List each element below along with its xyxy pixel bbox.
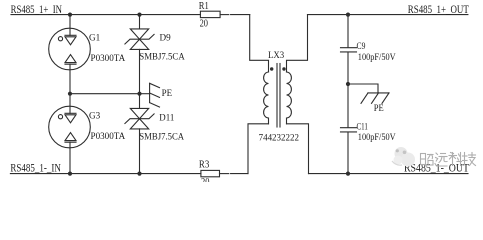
svg-text:PE: PE — [162, 89, 173, 99]
wire D9 top drop — [139, 15, 141, 29]
capacitor C11 — [341, 127, 357, 129]
wire middle horizontal G-D — [70, 93, 140, 95]
svg-text:100pF/50V: 100pF/50V — [358, 133, 396, 143]
transformer LX3 — [268, 51, 284, 61]
node junction bottom D11 — [137, 172, 141, 176]
node RS485_1-_IN label — [10, 161, 61, 175]
ground PE right — [368, 92, 389, 94]
svg-text:G1: G1 — [89, 33, 100, 43]
gas discharge tube G3 — [49, 106, 91, 148]
node junction bottom C11 — [346, 172, 350, 176]
node junction mid D — [137, 92, 141, 96]
svg-text:C11: C11 — [357, 122, 369, 132]
svg-text:D11: D11 — [159, 113, 174, 123]
svg-text:RS485_1-_IN: RS485_1-_IN — [10, 161, 61, 175]
svg-text:D9: D9 — [160, 33, 171, 43]
svg-text:LX3: LX3 — [268, 51, 284, 61]
svg-text:744232222: 744232222 — [259, 133, 300, 143]
svg-text:R1: R1 — [199, 1, 209, 12]
ground PE left — [140, 93, 150, 95]
wire LX3 top-right lead — [287, 15, 308, 72]
node RS485_1+_IN label — [11, 2, 63, 16]
node junction top C9 — [346, 13, 350, 17]
wire bottom rail left segment — [10, 173, 201, 175]
wire LX3 bottom-right lead — [287, 124, 309, 174]
wire top rail right segment — [308, 14, 468, 16]
TVS diode D9 — [130, 29, 148, 39]
wire LX3 bottom-left lead — [248, 124, 269, 174]
node junction mid G — [68, 92, 72, 96]
svg-text:P0300TA: P0300TA — [91, 54, 126, 64]
node junction top D9 — [137, 13, 141, 17]
svg-text:20: 20 — [201, 177, 209, 182]
svg-text:R3: R3 — [199, 160, 209, 171]
char ji — [463, 153, 476, 166]
node junction PE branch — [346, 82, 350, 86]
wire R3 right to transformer corner — [220, 173, 229, 175]
svg-text:RS485_1+_IN: RS485_1+_IN — [11, 2, 63, 16]
polarity dot left — [270, 67, 273, 70]
resistor R3 — [201, 170, 220, 176]
inductor LX3 right winding — [287, 72, 292, 124]
char yuan — [435, 153, 447, 166]
wire R1 right to transformer corner — [220, 14, 229, 16]
wire C11 bottom — [347, 132, 349, 173]
svg-text:SMBJ7.5CA: SMBJ7.5CA — [139, 133, 184, 143]
wire D11 bottom drop — [139, 129, 141, 174]
node junction bottom G3 — [68, 172, 72, 176]
char zhao — [421, 154, 434, 166]
wire PE branch — [348, 84, 378, 93]
node junction top G1 — [68, 13, 72, 17]
svg-text:100pF/50V: 100pF/50V — [358, 53, 396, 63]
svg-text:G3: G3 — [89, 111, 100, 121]
resistor R1 — [200, 11, 220, 17]
svg-text:P0300TA: P0300TA — [91, 132, 126, 142]
wire bottom rail right segment — [309, 173, 469, 175]
polarity dot right — [282, 67, 285, 70]
svg-text:C9: C9 — [357, 42, 366, 52]
wire C9 top — [347, 15, 349, 48]
svg-text:20: 20 — [200, 18, 208, 29]
wire G3 bottom drop — [69, 142, 71, 173]
svg-text:RS485_1+_OUT: RS485_1+_OUT — [408, 2, 469, 16]
svg-text:PE: PE — [374, 104, 384, 114]
watermark text 昭远科技 — [421, 153, 476, 167]
inductor LX3 left winding — [264, 72, 269, 124]
wire C9 to C11 — [347, 52, 349, 127]
svg-text:SMBJ7.5CA: SMBJ7.5CA — [139, 53, 185, 63]
wire top rail left segment — [11, 14, 200, 16]
char ke — [449, 153, 462, 166]
wire LX3 top-left lead — [250, 15, 269, 72]
capacitor C9 — [341, 47, 357, 49]
TVS diode D11 — [130, 108, 148, 118]
node RS485_1-_OUT label — [404, 161, 470, 175]
wire G1 top drop — [69, 15, 71, 36]
gas discharge tube G1 — [49, 28, 91, 70]
wire D9 bottom to D11 top — [139, 49, 141, 108]
wire G1 bottom to G3 top — [69, 64, 71, 113]
watermark logo — [392, 147, 415, 167]
core LX3 — [276, 64, 278, 128]
node RS485_1+_OUT label — [408, 2, 469, 16]
